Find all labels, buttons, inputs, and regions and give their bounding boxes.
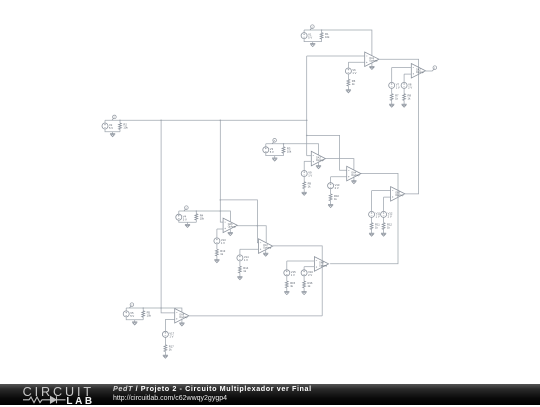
wire to ground S5 [134, 320, 136, 322]
ground V8 chain [402, 104, 407, 107]
ground of OA6 [228, 233, 233, 236]
wire R2 bottom [119, 129, 121, 131]
op-amp OA5 [391, 187, 405, 202]
svg-text:10k: 10k [287, 149, 292, 153]
svg-text:5 V: 5 V [270, 150, 274, 154]
op-amp OA9 [175, 309, 189, 324]
bus vertical [306, 56, 308, 156]
resistor R3 [282, 147, 285, 153]
wire OA6 plus input [217, 228, 223, 230]
voltage source V5 [123, 311, 129, 317]
wire V3 top to OA3 V+ [266, 144, 319, 155]
wire bus to OA4 minus input [307, 135, 347, 170]
ground V6 chain [346, 90, 351, 93]
wire R11 to ground [371, 229, 373, 233]
junction R3 top [283, 143, 285, 145]
wire V17 to R17 [164, 337, 166, 344]
wire to R4 top [195, 211, 197, 214]
wire OA5 minus input [372, 190, 391, 192]
junction [220, 199, 222, 201]
svg-text:OpAmp: OpAmp [263, 246, 272, 249]
junction R2 top [119, 120, 121, 122]
wire to R1 top [321, 30, 323, 33]
junction [160, 120, 162, 122]
wire V8 to R8 [403, 89, 405, 94]
svg-text:5 V: 5 V [130, 314, 134, 318]
wire to V16 [303, 267, 305, 270]
wire R9 to ground [303, 189, 305, 193]
node B [272, 142, 274, 144]
resistor R11 [370, 223, 373, 230]
wire OA4 plus input [331, 176, 347, 178]
voltage source V16 [301, 270, 307, 276]
ground V12 chain [381, 233, 386, 236]
voltage source V6 [345, 68, 351, 74]
wire R10 to ground [330, 201, 332, 205]
svg-text:5 V: 5 V [183, 217, 187, 221]
junction bus/horizontal [306, 120, 308, 122]
wire V10 to R10 [330, 189, 332, 194]
wire R14 to ground [239, 273, 241, 277]
svg-text:2 V: 2 V [335, 186, 339, 190]
wire OA3 output to OA4 V+ [326, 159, 354, 170]
op-amp OA4 ground stub [353, 177, 355, 181]
svg-text:10k: 10k [123, 126, 128, 130]
junction R5 top [142, 307, 144, 309]
wire bus left vertical 1 [160, 120, 162, 308]
wire R1 bottom [321, 39, 323, 42]
wire V9 to R9 [303, 177, 305, 182]
ground of OA1 [369, 66, 374, 69]
resistor R10 [329, 194, 332, 201]
svg-text:10k: 10k [147, 313, 152, 317]
junction OA6 output/OA7 minus net [257, 225, 259, 227]
junction bus/OA4 branch [306, 135, 308, 137]
svg-text:1 V: 1 V [221, 241, 225, 245]
op-amp OA9 ground stub [181, 319, 183, 323]
wire to V8 [403, 74, 405, 82]
wire OA1 output down right side [379, 59, 419, 194]
node OUT [432, 69, 434, 71]
wire to ground S3 [274, 156, 276, 158]
resistor R4 [195, 214, 198, 220]
footer bar [0, 384, 540, 405]
resistor R13 [216, 249, 219, 256]
wire R17 to ground [164, 352, 166, 356]
wire V4 bottom [179, 220, 197, 222]
junction R4 top [196, 210, 198, 212]
resistor R17 [164, 345, 167, 352]
ground of OA4 [351, 181, 356, 184]
wire bus to OA9 minus input [161, 308, 175, 313]
wire V7 to R7 [391, 89, 393, 94]
wire to V2 plus [104, 120, 106, 123]
wire R7 to ground [391, 100, 393, 104]
voltage source V7 [389, 82, 395, 88]
wire R13 to ground [216, 256, 218, 260]
ground V11 chain [369, 233, 374, 236]
svg-text:1 V: 1 V [291, 273, 295, 277]
wire to V10 [330, 177, 332, 183]
op-amp OA2 [411, 64, 425, 79]
op-amp OA6 [223, 218, 237, 233]
voltage source V12 [381, 211, 387, 217]
ground S3 [272, 158, 277, 161]
wire to ground S4 [187, 222, 189, 224]
junction [220, 210, 222, 212]
node A [112, 118, 114, 120]
ground V17 chain [163, 355, 168, 358]
wire OA2 plus input [404, 73, 411, 75]
wire to ground S1 [312, 42, 314, 44]
op-amp OA1 [365, 52, 379, 67]
ground V16 chain [302, 292, 307, 295]
wire OA9 plus input [165, 318, 174, 320]
junction [220, 120, 222, 122]
ground V13 chain [214, 260, 219, 263]
resistor R15 [285, 281, 288, 288]
wire V6 to R6 [347, 74, 349, 79]
wire OA3 plus input [304, 160, 311, 162]
resistor R6 [347, 79, 350, 86]
ground S1 [310, 44, 315, 47]
svg-text:2 V: 2 V [308, 273, 312, 277]
node N1 [310, 28, 312, 30]
voltage source V10 [328, 183, 334, 189]
svg-text:OpAmp: OpAmp [416, 71, 425, 74]
wire V3 bottom [266, 153, 284, 156]
resistor R16 [303, 281, 306, 288]
wire V4 top to OA6 V+ [179, 211, 231, 222]
wire to V13 [216, 229, 218, 238]
svg-text:1 V: 1 V [308, 174, 312, 178]
wire V5 bottom [126, 317, 143, 320]
ground S4 [185, 224, 190, 227]
wire OA2 minus input [392, 67, 412, 69]
wire R3 bottom [283, 153, 285, 155]
wire to R2 top [119, 120, 121, 123]
wire V14 to R14 [239, 261, 241, 266]
wire R16 to ground [303, 288, 305, 292]
voltage source V17 [162, 331, 168, 337]
wire R12 to ground [383, 229, 385, 233]
svg-text:1 V: 1 V [169, 334, 173, 338]
svg-text:1 V: 1 V [244, 258, 248, 262]
wire V1 bottom [304, 39, 322, 42]
svg-text:OpAmp: OpAmp [395, 194, 404, 197]
wire to V4 plus [178, 211, 180, 214]
resistor R1 [320, 33, 323, 39]
wire OA2 output [426, 70, 433, 72]
wire V11 to R11 [371, 218, 373, 223]
svg-text:OpAmp: OpAmp [179, 316, 188, 319]
voltage source V4 [176, 214, 182, 220]
wire V2 bottom [105, 129, 120, 132]
wire bus from V2 [105, 119, 307, 121]
svg-text:1 V: 1 V [352, 71, 356, 75]
ground V9 chain [302, 192, 307, 195]
wire R6 to ground [347, 86, 349, 90]
CircuitLab logo CIRCUIT [23, 386, 94, 398]
CircuitLab logo LAB [66, 397, 94, 406]
ground S2 [110, 134, 115, 137]
resistor R7 [390, 94, 393, 101]
resistor R14 [239, 266, 242, 273]
svg-text:10k: 10k [200, 216, 205, 220]
ground V7 chain [389, 104, 394, 107]
wire OA8 minus input [287, 260, 315, 262]
junction R1 top [321, 29, 323, 31]
voltage source V11 [369, 211, 375, 217]
wire R5 bottom [142, 317, 144, 320]
resistor R12 [382, 223, 385, 230]
ground of OA3 [316, 166, 321, 169]
node D [130, 306, 132, 308]
voltage source V3 [263, 147, 269, 153]
op-amp OA7 ground stub [265, 250, 267, 254]
svg-text:2 V: 2 V [388, 215, 392, 219]
voltage source V2 [102, 123, 108, 129]
op-amp OA7 [259, 239, 273, 254]
wire to V9 [303, 161, 305, 170]
op-amp OA4 [347, 166, 361, 181]
svg-text:1 V: 1 V [396, 86, 400, 90]
voltage source V9 [301, 171, 307, 177]
junction bus vertical [160, 307, 162, 309]
wire V15 to R15 [286, 276, 288, 281]
logo resistor-diode squiggle [23, 395, 67, 405]
ground V14 chain [237, 277, 242, 280]
op-amp OA1 ground stub [371, 63, 373, 67]
resistor R2 [119, 123, 122, 129]
voltage source V8 [401, 82, 407, 88]
svg-text:OpAmp: OpAmp [319, 264, 328, 267]
wire OA7 plus input [240, 248, 259, 250]
ground V10 chain [328, 205, 333, 208]
wire V16 to R16 [303, 276, 305, 281]
wire to V1 plus [303, 30, 305, 33]
wire V12 to R12 [383, 218, 385, 223]
wire to V3 plus [265, 144, 267, 147]
wire bus to OA3 minus input [307, 155, 312, 157]
wire to V5 plus [125, 308, 127, 311]
svg-text:1 V: 1 V [376, 215, 380, 219]
wire to V7 [391, 68, 393, 83]
op-amp OA3 [311, 151, 325, 166]
ground of OA7 [263, 253, 268, 256]
wire to OA7 minus input [220, 200, 258, 243]
svg-text:5 V: 5 V [308, 36, 312, 40]
wire bus to OA1 minus input [307, 55, 365, 57]
wire to ground S2 [112, 132, 114, 134]
svg-text:10k: 10k [325, 35, 330, 39]
ground S5 [132, 322, 137, 325]
wire to V17 [164, 319, 166, 331]
ground of OA9 [179, 323, 184, 326]
wire to V6 [347, 62, 349, 68]
svg-text:OpAmp: OpAmp [369, 60, 378, 63]
wire to V15 [286, 261, 288, 270]
voltage source V1 [301, 33, 307, 39]
wire V13 to R13 [216, 244, 218, 249]
wire OA9 output [189, 315, 322, 317]
svg-text:5 V: 5 V [109, 126, 113, 130]
wire to V11 [371, 191, 373, 212]
op-amp OA3 ground stub [318, 162, 320, 166]
footer url [113, 395, 227, 402]
op-amp OA8 [314, 257, 328, 272]
wire to V12 [383, 197, 385, 211]
wire V1 top to OA1 V+ [304, 30, 372, 56]
svg-text:OpAmp: OpAmp [316, 159, 325, 162]
svg-text:OpAmp: OpAmp [351, 174, 360, 177]
ground V15 chain [284, 292, 289, 295]
wire OA5 plus input [384, 196, 391, 198]
svg-text:OpAmp: OpAmp [228, 226, 237, 229]
resistor R9 [303, 182, 306, 189]
wire bus left vertical 2 to OA6 minus [220, 120, 223, 222]
wire to R3 top [283, 144, 285, 147]
wire R4 bottom [195, 220, 197, 222]
svg-text:2 V: 2 V [408, 86, 412, 90]
wire V5 top to OA9 V+ [126, 308, 182, 312]
wire to R5 top [142, 308, 144, 311]
node C [184, 209, 186, 211]
voltage source V13 [214, 238, 220, 244]
resistor R5 [142, 311, 145, 317]
wire OA1 plus input [348, 61, 364, 63]
wire OA7 output down [273, 246, 323, 316]
resistor R8 [403, 94, 406, 101]
voltage source V14 [237, 255, 243, 261]
wire R8 to ground [403, 100, 405, 104]
voltage source V15 [284, 270, 290, 276]
wire OA8 plus input [304, 266, 314, 268]
op-amp OA6 ground stub [229, 229, 231, 233]
wire OA6 output [237, 226, 266, 243]
wire R15 to ground [286, 288, 288, 292]
wire to V14 [239, 249, 241, 255]
footer title text [113, 385, 312, 392]
wire OA4 output down to OA8 [330, 173, 398, 263]
